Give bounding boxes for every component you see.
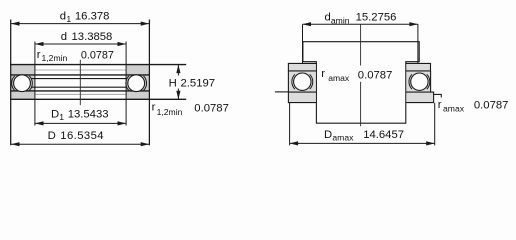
svg-text:13.3858: 13.3858 [72, 31, 113, 43]
svg-text:amin: amin [331, 15, 350, 25]
dimension D1 arrow left [35, 121, 44, 125]
svg-text:0.0787: 0.0787 [358, 70, 393, 82]
svg-text:D: D [324, 129, 332, 141]
bearing right edge [148, 20, 150, 146]
left mini race arcs [292, 74, 313, 89]
right mini housing washer outline [406, 92, 434, 103]
svg-text:1: 1 [59, 112, 64, 122]
svg-text:r: r [152, 102, 156, 114]
svg-text:1: 1 [66, 14, 71, 24]
dimension D1 line [35, 122, 126, 124]
svg-text:16.378: 16.378 [75, 11, 110, 23]
dimension D1 arrow right [118, 121, 127, 125]
centerline lower [360, 82, 362, 126]
ball left [14, 75, 31, 92]
svg-text:0.0787: 0.0787 [474, 99, 509, 111]
svg-text:d: d [61, 31, 67, 43]
svg-text:d: d [325, 11, 331, 23]
svg-text:14.6457: 14.6457 [363, 129, 404, 141]
svg-text:amax: amax [332, 133, 354, 143]
dimension d arrow right [118, 42, 127, 46]
left mini ball [294, 73, 311, 90]
housing washer bottom face [10, 98, 186, 100]
svg-text:13.5433: 13.5433 [68, 109, 109, 121]
shaft washer bottom face [10, 74, 150, 76]
dimension damin line [303, 23, 418, 25]
dimension damin arrow right [409, 22, 418, 26]
dimension Damax line [290, 142, 435, 144]
ball right [128, 75, 145, 92]
dimension D arrow right [141, 142, 150, 146]
left mini housing washer outline [288, 92, 316, 103]
extension line bore right [125, 42, 127, 126]
extension line bore left [34, 42, 36, 126]
housing washer top face [10, 90, 150, 92]
extension line Damax right [434, 103, 436, 146]
housing surface left [275, 91, 289, 93]
right mini section hatch [406, 64, 433, 102]
housing surface right [434, 94, 442, 97]
section hatch left [11, 65, 35, 100]
shaft washer bore hidden line [35, 69, 126, 71]
extension line damin right [417, 24, 419, 64]
cage top line [32, 78, 127, 80]
svg-text:16.5354: 16.5354 [60, 130, 104, 142]
svg-text:0.0787: 0.0787 [194, 102, 229, 114]
svg-text:r: r [37, 49, 41, 61]
right mini ball [411, 73, 428, 90]
section hatch right [126, 65, 149, 100]
H dimension arrow up [176, 65, 180, 74]
extension line Damax left [289, 103, 291, 146]
svg-text:amax: amax [328, 73, 350, 83]
svg-text:H: H [169, 77, 177, 89]
ball left race arcs [12, 76, 33, 91]
right mini race arcs [409, 74, 430, 89]
right mini section mid edge [430, 71, 432, 92]
svg-text:15.2756: 15.2756 [356, 12, 397, 24]
dimension d1 arrow right [141, 22, 150, 26]
svg-text:D: D [48, 130, 56, 142]
dimension D arrow left [11, 142, 20, 146]
left mini shaft washer outline [288, 63, 316, 71]
svg-text:r: r [438, 99, 442, 111]
dimension Damax arrow right [426, 141, 435, 145]
dimension d1 line [11, 23, 149, 25]
svg-text:d: d [60, 11, 66, 23]
svg-text:1,2min: 1,2min [157, 107, 183, 117]
svg-text:amax: amax [443, 103, 465, 113]
dimension d line [35, 43, 126, 45]
svg-text:0.0787: 0.0787 [81, 50, 114, 62]
svg-text:r: r [321, 68, 325, 80]
svg-text:2.5197: 2.5197 [181, 77, 216, 89]
dimension Damax arrow left [290, 141, 299, 145]
bearing centerline [79, 60, 81, 105]
svg-text:D: D [51, 109, 59, 121]
dimension d1 arrow left [11, 22, 20, 26]
shaft washer top face [10, 64, 186, 66]
cage bottom line [32, 86, 127, 88]
housing washer bore hidden line [35, 93, 126, 95]
extension line damin left [302, 24, 304, 64]
dimension D line [11, 143, 149, 145]
dimension d arrow left [35, 42, 44, 46]
H dimension bottom segment [177, 89, 179, 100]
centerline upper [360, 24, 362, 65]
right mini shaft washer outline [406, 63, 431, 71]
ball right race arcs [126, 76, 147, 91]
H dimension arrow down [176, 91, 180, 100]
left mini section mid edge [287, 71, 289, 92]
left mini section hatch [289, 64, 316, 102]
svg-text:1,2min: 1,2min [42, 53, 68, 63]
H dimension top segment [177, 65, 179, 76]
shaft T-block [303, 42, 419, 124]
bearing left edge [10, 20, 12, 146]
dimension damin arrow left [303, 22, 312, 26]
